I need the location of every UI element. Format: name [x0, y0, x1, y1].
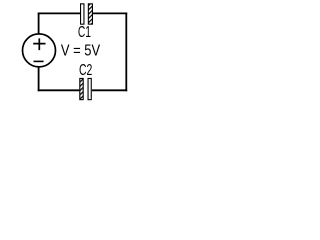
- capacitor C1 right plate (hatched): [88, 4, 92, 24]
- capacitor C1 left plate (hollow): [81, 4, 84, 24]
- voltage source V1 circle: [23, 34, 56, 67]
- minus sign: [34, 60, 44, 62]
- capacitor C2 left plate (hatched): [80, 78, 83, 99]
- wire bottom rail left segment: [38, 89, 80, 91]
- svg-text:C1: C1: [78, 24, 91, 41]
- wire top rail right segment: [93, 12, 127, 14]
- wire right rail: [125, 13, 127, 92]
- plus sign: [33, 38, 45, 50]
- svg-text:V = 5V: V = 5V: [61, 42, 100, 59]
- capacitor C2 right plate (hollow): [88, 78, 91, 99]
- svg-text:C2: C2: [79, 62, 92, 79]
- wire left rail lower: [38, 68, 40, 92]
- wire top rail left segment: [38, 12, 81, 14]
- wire bottom rail right segment: [92, 89, 127, 91]
- wire left rail upper: [38, 13, 40, 34]
